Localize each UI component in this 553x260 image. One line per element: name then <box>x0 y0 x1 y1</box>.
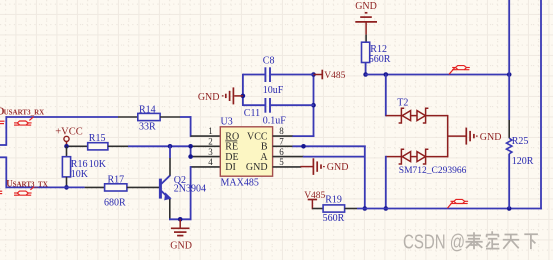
svg-text:2: 2 <box>208 137 213 147</box>
svg-text:DI: DI <box>225 162 236 173</box>
svg-text:1: 1 <box>208 126 213 136</box>
svg-text:+VCC: +VCC <box>55 126 83 137</box>
svg-text:USART3_RX: USART3_RX <box>4 108 45 116</box>
svg-text:T2: T2 <box>397 97 408 108</box>
svg-text:10K: 10K <box>89 159 107 170</box>
svg-text:GND: GND <box>327 162 349 173</box>
svg-text:GND: GND <box>198 92 220 103</box>
svg-text:U3: U3 <box>221 117 233 128</box>
svg-text:R19: R19 <box>325 195 342 206</box>
svg-text:R14: R14 <box>139 104 156 115</box>
svg-text:CSDN @: CSDN @ <box>403 231 465 253</box>
svg-text:R25: R25 <box>512 136 529 147</box>
svg-text:33R: 33R <box>139 122 156 133</box>
svg-text:5: 5 <box>279 157 284 167</box>
svg-text:GND: GND <box>355 1 377 12</box>
svg-text:C8: C8 <box>263 55 275 66</box>
svg-text:V485: V485 <box>304 191 325 201</box>
svg-text:R15: R15 <box>89 133 106 144</box>
svg-text:8: 8 <box>279 126 284 136</box>
svg-text:7: 7 <box>279 137 284 147</box>
svg-text:SM712_C293966: SM712_C293966 <box>399 166 467 176</box>
svg-text:4: 4 <box>208 157 213 167</box>
svg-text:V485: V485 <box>324 71 345 81</box>
svg-text:GND: GND <box>246 162 268 173</box>
svg-text:SART3_TX: SART3_TX <box>13 180 48 188</box>
svg-text:GND: GND <box>480 132 502 143</box>
svg-text:2N3904: 2N3904 <box>174 184 206 195</box>
svg-text:3: 3 <box>208 147 213 157</box>
svg-text:10K: 10K <box>71 169 89 180</box>
svg-text:560R: 560R <box>369 54 391 65</box>
svg-text:560R: 560R <box>323 213 345 224</box>
svg-text:R17: R17 <box>108 174 125 185</box>
svg-text:MAX485: MAX485 <box>221 178 259 189</box>
svg-text:10uF: 10uF <box>263 85 284 96</box>
svg-text:C11: C11 <box>244 108 260 119</box>
svg-text:0.1uF: 0.1uF <box>263 115 287 126</box>
svg-text:6: 6 <box>279 147 284 157</box>
svg-text:120R: 120R <box>512 156 534 167</box>
svg-text:680R: 680R <box>104 198 126 209</box>
svg-text:GND: GND <box>170 241 192 252</box>
